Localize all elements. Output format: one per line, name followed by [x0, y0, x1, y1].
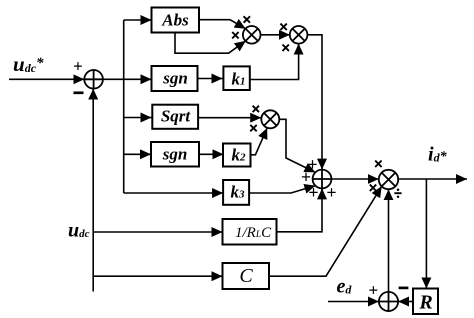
- svg-text:udc*: udc*: [13, 52, 44, 76]
- svg-text:sgn: sgn: [162, 145, 188, 164]
- svg-text:1/RLC: 1/RLC: [235, 225, 272, 241]
- svg-text:k3: k3: [231, 183, 246, 202]
- svg-text:+: +: [326, 183, 336, 203]
- svg-text:k1: k1: [232, 70, 246, 89]
- svg-text:k2: k2: [232, 146, 247, 165]
- svg-text:C: C: [239, 265, 253, 287]
- svg-text:R: R: [418, 292, 432, 314]
- svg-text:ed: ed: [337, 276, 353, 298]
- svg-text:id*: id*: [428, 144, 448, 166]
- svg-text:sgn: sgn: [162, 69, 188, 88]
- svg-text:Sqrt: Sqrt: [161, 107, 192, 126]
- svg-text:udc: udc: [68, 220, 90, 242]
- svg-text:+: +: [308, 183, 318, 203]
- svg-text:Abs: Abs: [161, 11, 189, 30]
- svg-text:+: +: [368, 281, 378, 300]
- svg-text:+: +: [73, 57, 83, 76]
